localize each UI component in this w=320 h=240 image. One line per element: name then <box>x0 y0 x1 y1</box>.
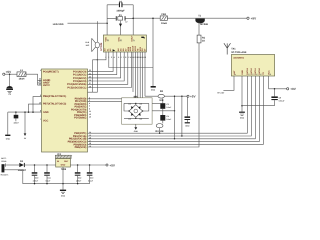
svg-text:0.1uF: 0.1uF <box>166 106 172 109</box>
wire data bus D2 <box>88 76 252 136</box>
svg-text:GND: GND <box>241 70 244 75</box>
svg-text:7805: 7805 <box>61 168 67 171</box>
resistor R1 <box>197 35 206 43</box>
capacitor C4 <box>160 109 172 121</box>
svg-text:VCC: VCC <box>43 119 48 122</box>
capacitor C9 <box>271 89 285 106</box>
svg-text:C1: C1 <box>8 93 10 96</box>
ground left <box>5 112 10 140</box>
diode D1 <box>18 160 27 172</box>
IC1 left pin labels <box>43 70 66 122</box>
svg-text:1K: 1K <box>202 40 205 43</box>
transistor T1 <box>195 14 208 25</box>
svg-text:D3: D3 <box>140 102 142 105</box>
svg-text:TX1: TX1 <box>231 47 236 50</box>
node +9V right <box>287 87 297 91</box>
svg-text:C13: C13 <box>90 176 93 179</box>
svg-text:ST-TX01-ASK: ST-TX01-ASK <box>231 51 247 54</box>
svg-text:GND: GND <box>61 164 66 167</box>
svg-text:GND: GND <box>43 111 49 114</box>
wire raw rail <box>25 164 56 166</box>
svg-text:18: 18 <box>106 39 109 41</box>
wire regulator ground pin <box>62 167 64 190</box>
node +5V bottom <box>106 163 116 167</box>
svg-text:3: 3 <box>111 56 112 59</box>
svg-text:9V BATT.: 9V BATT. <box>1 173 10 176</box>
capacitor C2 <box>13 112 19 125</box>
svg-text:7: 7 <box>40 118 41 121</box>
wire from node down left side of encoder <box>96 23 98 60</box>
svg-text:10uH: 10uH <box>161 22 167 25</box>
svg-text:+9V: +9V <box>251 17 258 21</box>
svg-text:25: 25 <box>89 76 91 79</box>
bridge internal wiring <box>124 103 149 118</box>
svg-text:5: 5 <box>118 56 119 59</box>
wire +9V to ground drop <box>152 18 154 86</box>
svg-text:BC548: BC548 <box>200 23 208 26</box>
wire TX VCC to +9V <box>269 76 287 89</box>
svg-text:C12: C12 <box>78 176 81 179</box>
capacitor C5 to ground <box>185 96 191 127</box>
resistor R2 <box>158 90 164 102</box>
ground regulator <box>60 190 66 198</box>
ground arrow below X1 <box>119 21 128 35</box>
svg-text:17: 17 <box>132 39 135 41</box>
svg-text:C7: C7 <box>125 21 127 24</box>
inductor L1 <box>17 69 26 81</box>
wire data bus D0 <box>88 76 260 142</box>
wire battery plus <box>7 164 20 166</box>
svg-text:100uF: 100uF <box>76 179 82 182</box>
svg-text:10uH: 10uH <box>19 78 25 81</box>
capacitor C11 <box>44 165 51 184</box>
svg-text:8: 8 <box>269 74 272 75</box>
svg-text:GND: GND <box>6 137 11 140</box>
crystal X1 <box>107 14 133 21</box>
svg-text:5: 5 <box>89 105 90 108</box>
svg-text:0.1uF: 0.1uF <box>46 179 52 182</box>
svg-text:6: 6 <box>89 107 90 110</box>
diode bridge box <box>122 98 153 124</box>
svg-text:PC5(ADC5/SCL): PC5(ADC5/SCL) <box>67 86 86 89</box>
wire crystal left leg <box>106 5 108 35</box>
node +9V top <box>247 17 257 21</box>
svg-text:10K: 10K <box>159 99 164 102</box>
svg-text:AVCC: AVCC <box>43 84 50 87</box>
svg-text:+9V: +9V <box>290 87 297 91</box>
svg-text:PB7(XTAL2/TOSC2): PB7(XTAL2/TOSC2) <box>43 103 66 106</box>
IC1 left pin numbers <box>39 69 41 121</box>
svg-text:PB6(XTAL1/TOSC1): PB6(XTAL1/TOSC1) <box>43 95 66 98</box>
svg-text:+5V: +5V <box>109 163 116 167</box>
diode D2 <box>128 102 133 109</box>
capacitor C1 to ground <box>6 74 13 96</box>
inductor FB1 <box>160 13 167 25</box>
battery connector CON1 <box>1 157 10 176</box>
wire PD0 to bridge <box>88 98 122 100</box>
transmitter module TX1 <box>231 47 274 76</box>
svg-text:DATA2: DATA2 <box>250 67 253 74</box>
node label LED/VDD <box>53 21 107 26</box>
svg-text:+5V: +5V <box>6 70 13 74</box>
wire mid vertical A <box>174 96 176 139</box>
svg-text:LED-VDD: LED-VDD <box>53 23 64 26</box>
wire R1 to PB5 line <box>88 43 200 147</box>
wire +5V mid rail <box>145 95 187 97</box>
svg-text:D2: D2 <box>128 102 130 105</box>
svg-text:1000pF: 1000pF <box>116 9 125 12</box>
encoder pin numbers <box>105 56 146 59</box>
svg-text:26: 26 <box>89 79 91 82</box>
node +5V left <box>3 70 12 75</box>
svg-text:DATA0: DATA0 <box>258 67 261 74</box>
IC1 right pin numbers <box>89 69 92 148</box>
svg-text:+5V: +5V <box>190 95 197 99</box>
svg-text:12: 12 <box>89 113 91 116</box>
wire bridge right mid <box>152 110 174 112</box>
svg-text:OUT: OUT <box>64 160 69 163</box>
svg-text:0.1uF: 0.1uF <box>88 179 94 182</box>
svg-text:GND: GND <box>61 194 66 197</box>
svg-text:3: 3 <box>248 74 251 75</box>
node +5V mid <box>187 95 197 99</box>
resistor R3 <box>156 121 164 134</box>
svg-text:CON1: CON1 <box>1 160 6 163</box>
svg-text:5: 5 <box>256 74 259 75</box>
capacitor C13 <box>87 165 94 184</box>
ground arrow net <box>24 112 27 140</box>
ground arrow below bridge <box>134 124 139 133</box>
svg-text:PB5(SCK): PB5(SCK) <box>75 146 87 149</box>
ground TX GND <box>239 106 245 120</box>
node junction <box>97 59 98 60</box>
svg-text:8: 8 <box>125 56 126 59</box>
svg-text:28: 28 <box>89 85 91 88</box>
wire T1 emitter <box>198 22 200 35</box>
svg-text:DATA1: DATA1 <box>254 67 257 74</box>
node crystal junctions <box>106 5 134 24</box>
svg-text:16: 16 <box>89 137 91 140</box>
svg-text:D5: D5 <box>140 118 142 121</box>
wire TX1 GND pin <box>241 76 243 106</box>
wire +9V top rail <box>133 17 247 19</box>
svg-text:0.01uF: 0.01uF <box>279 100 286 103</box>
svg-text:7: 7 <box>123 56 124 59</box>
svg-text:15: 15 <box>89 134 91 137</box>
wire TX ground link <box>242 105 275 107</box>
capacitor C12 <box>75 165 82 184</box>
IC1 right pin labels <box>67 70 86 149</box>
svg-text:100uF: 100uF <box>33 179 39 182</box>
capacitor C6 <box>107 0 133 12</box>
svg-text:1N4007: 1N4007 <box>18 169 27 172</box>
svg-text:1: 1 <box>40 69 41 72</box>
svg-text:27: 27 <box>89 82 91 85</box>
svg-text:16: 16 <box>120 39 123 41</box>
svg-text:GND: GND <box>151 89 156 92</box>
svg-text:BATT.: BATT. <box>1 157 7 160</box>
svg-text:18: 18 <box>89 142 91 145</box>
wire PB7 stub <box>29 104 42 112</box>
svg-text:C3: C3 <box>166 103 168 106</box>
svg-text:DATA3: DATA3 <box>246 67 249 74</box>
wire PD1 to bridge <box>88 100 122 102</box>
encoder bottom pin labels <box>104 45 147 52</box>
wire TX1 ANT pin <box>223 76 234 90</box>
svg-text:19: 19 <box>89 145 91 148</box>
microcontroller IC1 <box>42 69 88 152</box>
svg-text:GND: GND <box>185 124 190 127</box>
wire data bus TE <box>88 76 264 144</box>
svg-text:6: 6 <box>260 74 263 75</box>
antenna ANT1 <box>224 43 231 54</box>
regulator IC2 <box>55 153 72 171</box>
wire bridge to cap chain <box>152 102 160 104</box>
svg-text:C11: C11 <box>47 176 50 179</box>
TX1 pin labels <box>233 67 272 74</box>
svg-text:GND: GND <box>134 130 139 133</box>
bridge circle <box>134 109 138 113</box>
op-amp U2 encoder block <box>103 35 146 52</box>
svg-text:PC6(/RESET): PC6(/RESET) <box>43 70 59 73</box>
node bridge dots <box>128 103 143 119</box>
wire PB6 stub <box>33 97 42 113</box>
wire data bus D3 <box>88 76 248 133</box>
wire GND row <box>8 111 42 113</box>
svg-text:C9: C9 <box>279 97 281 100</box>
ground mid <box>151 86 156 92</box>
encoder top pin labels <box>104 35 144 42</box>
wire +5V entry <box>5 73 17 75</box>
svg-text:RF-ANT: RF-ANT <box>217 91 225 94</box>
wire data bus D1 <box>88 76 256 139</box>
svg-text:100nF: 100nF <box>13 122 19 125</box>
svg-text:433.92MHZ: 433.92MHZ <box>233 57 245 60</box>
wire battery minus to bottom rail <box>7 170 90 184</box>
diode D4 <box>128 113 133 121</box>
svg-text:C10: C10 <box>35 176 38 179</box>
svg-text:HT12E: HT12E <box>100 42 103 50</box>
wire crystal right leg <box>132 5 134 35</box>
svg-text:11: 11 <box>89 110 91 113</box>
speaker PZ1 <box>86 38 100 51</box>
svg-text:FB1: FB1 <box>162 13 167 16</box>
svg-text:0.1uF: 0.1uF <box>166 118 172 121</box>
svg-text:1: 1 <box>234 74 237 75</box>
svg-text:17: 17 <box>89 139 91 142</box>
capacitor C10 <box>32 165 39 184</box>
svg-text:23: 23 <box>89 69 91 72</box>
svg-text:GND: GND <box>240 116 245 119</box>
wire L1 to AVCC pins <box>26 74 38 85</box>
wire mid vertical B <box>181 96 183 136</box>
wire 5V rail <box>70 164 106 166</box>
diode D3 <box>138 102 142 109</box>
wire encoder pin stubs <box>88 52 154 98</box>
svg-text:13: 13 <box>89 116 91 119</box>
capacitor C3 <box>160 98 172 109</box>
diode D5 <box>138 113 142 121</box>
svg-text:PD7(AIN1): PD7(AIN1) <box>74 117 86 120</box>
